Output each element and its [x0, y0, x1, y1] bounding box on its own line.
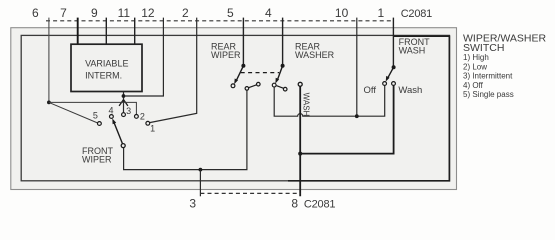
inner box: [21, 35, 449, 180]
svg-text:SWITCH: SWITCH: [463, 42, 504, 54]
node junction 12-module: [122, 94, 126, 98]
wire pin 12: [125, 18, 163, 96]
wire junction6 to contact 2: [49, 102, 136, 114]
svg-text:2: 2: [182, 6, 189, 20]
svg-text:4: 4: [265, 6, 272, 20]
rear washer pole contact C: [283, 87, 287, 91]
wire pin 7: [77, 18, 79, 45]
wire module output to contact 3: [123, 92, 125, 113]
wire pin 11: [134, 18, 136, 45]
front wash arm: [387, 67, 393, 78]
rear wiper pole contact A: [245, 87, 249, 91]
svg-text:WASHER: WASHER: [295, 50, 335, 60]
rear wiper arm arrowhead: [234, 79, 238, 85]
rear wiper contact: [231, 84, 235, 88]
top bus dashed line C2081: [46, 20, 393, 22]
svg-text:WIPER: WIPER: [82, 154, 112, 164]
rear wiper pole arm: [249, 85, 257, 88]
node junction wire6: [47, 101, 51, 105]
rear wiper pole contact B: [257, 82, 261, 86]
intermittent position arrow: [119, 100, 128, 106]
svg-text:9: 9: [91, 6, 98, 20]
wire junction6 to contact 5: [49, 102, 98, 123]
svg-text:Off: Off: [364, 85, 377, 96]
svg-text:5: 5: [227, 6, 234, 20]
svg-text:1: 1: [150, 124, 155, 134]
inner box dark segment: [288, 36, 449, 181]
svg-text:INTERM.: INTERM.: [85, 71, 122, 81]
svg-text:1: 1: [377, 6, 384, 20]
svg-text:10: 10: [335, 6, 349, 20]
svg-text:C2081: C2081: [304, 198, 335, 210]
svg-text:1) High: 1) High: [463, 53, 489, 62]
front wash pivot: [392, 65, 396, 69]
svg-text:3: 3: [189, 196, 196, 210]
front wiper contact 4: [110, 115, 114, 119]
rear wiper arm: [236, 66, 243, 81]
svg-text:WASH: WASH: [399, 45, 426, 55]
front wiper contact 2: [135, 115, 139, 119]
front wiper contact 5: [98, 122, 102, 126]
svg-text:11: 11: [118, 6, 131, 20]
bottom bus dashed line C2081: [200, 192, 300, 194]
wire pin 5 rear wiper feed: [242, 18, 244, 66]
svg-text:WASH: WASH: [301, 93, 310, 117]
wire wash contact to wash line: [301, 85, 394, 153]
front wiper contact 3: [122, 113, 126, 117]
svg-text:VARIABLE: VARIABLE: [85, 59, 128, 69]
svg-text:6: 6: [32, 6, 39, 20]
rear wiper pivot: [241, 64, 245, 68]
rear washer arm: [277, 66, 282, 81]
svg-text:4) Off: 4) Off: [463, 81, 484, 90]
wire pin 6: [48, 18, 50, 103]
node junction pin 10: [355, 114, 359, 118]
front wash arm arrowhead: [386, 76, 390, 82]
wire pin 3: [199, 170, 201, 197]
wire pin 9: [105, 18, 107, 45]
rear washer pole arm: [277, 86, 284, 89]
svg-text:Wash: Wash: [398, 85, 422, 96]
svg-text:2) Low: 2) Low: [463, 62, 487, 71]
rear washer contact: [272, 83, 276, 87]
wire pin 1 front wash feed: [392, 18, 394, 68]
svg-text:7: 7: [60, 6, 67, 20]
wire front wiper pivot to bottom bus: [124, 90, 247, 169]
svg-text:4: 4: [108, 105, 113, 115]
svg-text:C2081: C2081: [401, 8, 432, 20]
gang link dashed: [241, 72, 280, 74]
front wiper contact 1: [146, 121, 150, 125]
node junction wash line: [298, 152, 302, 156]
wire pin 10: [356, 18, 358, 117]
wire pin 2: [150, 18, 197, 123]
outer box: [11, 28, 457, 190]
front wiper pivot: [121, 144, 125, 148]
front wiper arm arrowhead: [112, 118, 116, 124]
svg-text:3: 3: [126, 106, 131, 116]
svg-text:3) Intermittent: 3) Intermittent: [463, 72, 513, 81]
front wash wash contact: [392, 82, 396, 86]
svg-text:5: 5: [93, 111, 98, 121]
svg-text:12: 12: [141, 6, 155, 20]
front wiper arm: [114, 122, 123, 144]
wire rear washer contact to off bus with hop: [274, 85, 385, 116]
rear washer pivot: [281, 64, 285, 68]
svg-text:5) Single pass: 5) Single pass: [463, 90, 514, 99]
front wash off contact: [383, 82, 387, 86]
wash line contact: [298, 82, 302, 86]
variable intermittent module U1: [71, 44, 142, 91]
svg-text:8: 8: [291, 196, 298, 210]
svg-text:2: 2: [140, 112, 145, 122]
node junction pin 3: [199, 168, 203, 172]
wire pin 4 rear washer feed: [282, 18, 284, 66]
wire wash line pin 8: [299, 86, 301, 196]
rear washer arm arrowhead: [275, 78, 279, 84]
svg-text:WIPER: WIPER: [211, 50, 241, 60]
